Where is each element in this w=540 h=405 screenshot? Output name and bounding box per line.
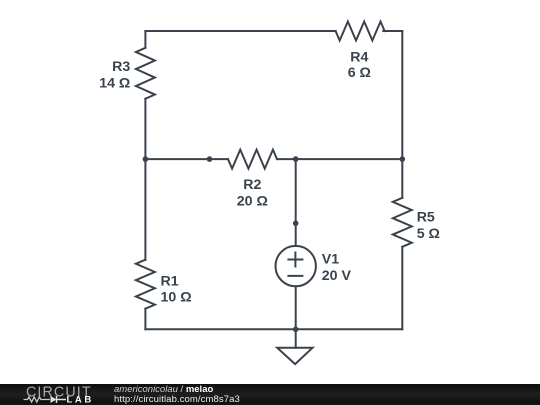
label R3	[99, 59, 130, 91]
label V1	[322, 251, 352, 283]
svg-text:R5: R5	[417, 209, 435, 225]
svg-text:V1: V1	[322, 251, 339, 267]
svg-text:LAB: LAB	[67, 395, 94, 405]
node A junction dot left-middle	[143, 156, 149, 162]
svg-text:14 Ω: 14 Ω	[99, 75, 130, 91]
footer credit line 1	[114, 384, 213, 395]
footer bar	[0, 384, 540, 405]
resistor R1	[136, 260, 155, 309]
label R2	[237, 177, 268, 209]
wire middle right segment	[277, 158, 402, 160]
wire right upper	[401, 31, 403, 198]
wire right lower	[401, 247, 403, 329]
wire middle left segment	[145, 158, 228, 160]
svg-text:10 Ω: 10 Ω	[161, 290, 192, 306]
wire bottom	[145, 328, 402, 330]
CircuitLab logo resistor squiggle	[24, 397, 50, 402]
svg-text:5 Ω: 5 Ω	[417, 226, 440, 242]
node junction dot middle wire	[207, 156, 213, 162]
resistor R2	[228, 150, 277, 169]
footer credit line 2	[114, 394, 240, 405]
svg-text:20 Ω: 20 Ω	[237, 194, 268, 210]
wire left middle	[144, 99, 146, 260]
svg-text:20 V: 20 V	[322, 268, 352, 284]
voltage source V1	[276, 246, 316, 286]
svg-text:R2: R2	[243, 177, 261, 193]
label R1	[161, 273, 192, 305]
node junction dot V1 branch	[293, 221, 299, 227]
CircuitLab logo diode	[51, 396, 57, 403]
node junction dot ground	[293, 327, 299, 333]
svg-text:6 Ω: 6 Ω	[348, 65, 371, 81]
svg-text:R1: R1	[161, 273, 179, 289]
node junction dot right-middle	[400, 156, 406, 162]
resistor R5	[393, 198, 412, 247]
svg-text:R3: R3	[112, 59, 130, 75]
resistor R4	[336, 22, 385, 41]
label R4	[348, 49, 371, 81]
wire V1 stem upper	[295, 159, 297, 246]
label R5	[417, 209, 440, 242]
wire left upper	[144, 31, 146, 48]
wire V1 stem lower	[295, 286, 297, 329]
resistor R3	[136, 48, 155, 99]
ground	[277, 329, 312, 364]
wire top-left segment	[145, 30, 335, 32]
wire top-right segment	[383, 30, 402, 32]
wire left lower	[144, 309, 146, 330]
svg-text:R4: R4	[350, 49, 368, 65]
node junction dot V1 top	[293, 156, 299, 162]
